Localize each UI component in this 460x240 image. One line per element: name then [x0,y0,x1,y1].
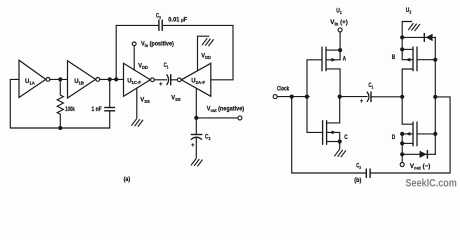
ground (chassis) U2 VDD [202,39,213,46]
resistor R 100k [57,79,63,128]
node: Vout junction [194,116,198,120]
arrow (body, B) [406,58,411,62]
bubble U1B output [96,78,100,82]
terminal Clock [273,95,277,99]
terminal Vin(+) with U1 label [338,28,342,32]
svg-text:C1: C1 [368,82,373,89]
arrow (body, A) [331,58,336,62]
wire: B top to chassis and diode node [402,22,411,50]
wire: C1 to node R [371,96,402,98]
wire: Vin to U1C-F VDD pin [133,46,136,71]
ground (chassis) C source [335,150,346,157]
diode D2 (bottom, cathode right) [402,153,435,155]
node: D gate junction [433,132,437,136]
svg-text:C3: C3 [156,13,161,20]
wire: U1C-F out to C1 [154,79,166,81]
ground (chassis) top of B [409,24,420,31]
node: top diode tap [400,35,404,39]
capacitor C1 (a) polarized [167,75,169,85]
node: 1nF tap [108,77,112,81]
terminal Vout (-) [400,163,404,167]
svg-text:SeekIC.com: SeekIC.com [406,178,457,190]
node: resistor bottom junction [58,126,62,130]
transistor C (gate left) [322,121,324,144]
capacitor C3 (b) [365,169,367,177]
wire: C source to ground [339,142,341,149]
wire: bottom rail right to gate rail [370,97,450,173]
node: node L junction [338,95,342,99]
node: C3 feedback tap [114,77,118,81]
bubble U1A output [46,78,50,82]
svg-text:+: + [191,143,195,149]
svg-text:U1C-F: U1C-F [127,77,141,85]
svg-text:C: C [344,135,347,142]
node: D source tie [400,141,404,145]
node: B gate junction [433,58,437,62]
svg-text:Vin (+): Vin (+) [330,19,348,27]
svg-text:C3: C3 [356,163,361,170]
svg-text:0.01 µF: 0.01 µF [168,17,187,23]
arrow (body, D) [406,132,411,136]
svg-text:U1: U1 [336,8,342,15]
node: gate tap A/C [305,95,309,99]
svg-text:U1A: U1A [25,78,36,86]
bubble U2A-F input [177,78,181,82]
wire: D source rail to Vout [401,134,403,163]
svg-text:VDD: VDD [138,63,148,70]
wire: node L to C1 [340,96,367,98]
wire: C1 to U2A-F bubble [171,79,178,81]
svg-text:U2A-F: U2A-F [191,78,205,86]
node: B drain/body tie [400,47,404,51]
svg-text:VDD: VDD [201,53,211,60]
wire: U2A-F VSS pin to Vout node [195,88,197,118]
terminal Vin (positive) [132,42,136,46]
svg-text:Vin (positive): Vin (positive) [141,41,174,48]
wire: U2A-F VDD pin to chassis ground (top) [198,36,209,71]
node: C source/body tie [338,139,342,143]
wire: Vout (negative) lead [196,117,237,119]
capacitor 1 nF [109,79,111,107]
svg-text:C2: C2 [205,134,211,141]
capacitor C2 polarized [195,118,197,134]
arrow (body, C) [332,131,337,135]
svg-text:U1B: U1B [74,78,84,86]
svg-text:+: + [159,81,163,87]
wire: U1A input feedback left and bottom run [10,79,109,128]
svg-text:U2: U2 [406,8,412,15]
wire: C3 feedback top rail [116,25,159,79]
ground (chassis) U1 VSS [132,119,143,126]
transistor A (gate left) [321,47,323,70]
wire: U1C-F VSS pin to ground [136,88,138,118]
wire: U1A out to U1B in [50,78,68,80]
node: bottom diode tap [400,152,404,156]
inverter U2A-F (apex left) [181,63,211,96]
node: A source/body tie [338,48,342,52]
transistor B (gate right) [412,47,414,70]
node: gate rail / C3 jog junction [433,95,437,99]
svg-text:+: + [360,98,364,104]
wire: left outer rail to C3 [292,97,367,173]
svg-text:A: A [343,56,346,63]
svg-text:(a): (a) [124,177,131,183]
svg-text:D: D [392,135,395,142]
svg-text:1 nF: 1 nF [92,107,103,114]
wire: clock line [277,96,309,98]
node: left rail tap [290,95,294,99]
svg-text:Vout (−): Vout (−) [410,163,430,171]
capacitor C1 (b) polarized [367,92,369,101]
diode D1 (top, cathode left) [402,36,435,38]
wire: U1B out to U1C-F in [100,78,124,80]
transistor D (gate right) [412,122,414,145]
svg-text:C1: C1 [164,63,169,70]
inverter U1A [19,60,46,97]
svg-text:Vout (negative): Vout (negative) [207,106,244,113]
svg-text:100k: 100k [65,106,75,113]
node: U1A output junction [58,77,62,81]
node: node R junction [400,95,404,99]
node: D body tie [400,132,404,136]
svg-text:VSS: VSS [140,97,150,104]
inverter U1C-F [124,63,151,96]
svg-text:VSS: VSS [171,95,181,102]
svg-text:Clock: Clock [277,86,289,93]
svg-text:(b): (b) [354,178,361,184]
wire: gate rail [434,37,436,154]
ground (chassis) C2 [191,159,202,166]
inverter U1B [68,61,96,98]
capacitor C3 0.01uF [158,20,160,30]
terminal Vout (negative) [238,116,242,120]
svg-text:B: B [392,55,395,62]
bubble U1C-F output [151,78,155,82]
